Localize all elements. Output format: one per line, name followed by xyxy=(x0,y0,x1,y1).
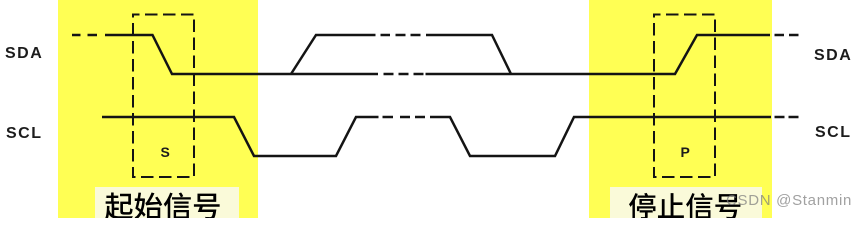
wire SCL right dashed tail xyxy=(775,116,799,119)
wire SDA baseline to stop rise and high to right xyxy=(426,35,771,74)
wire SCL: high, fall, low, rise xyxy=(102,117,379,156)
node SCL label left xyxy=(6,126,43,142)
wire SCL: high, fall, low, rise at stop, high to right xyxy=(430,117,771,156)
node SCL label right xyxy=(815,125,852,141)
wire SDA left dashed lead-in xyxy=(72,34,97,37)
wire SDA pulse top dashes xyxy=(381,34,421,37)
start condition dashed box S xyxy=(133,15,194,178)
node SDA label right xyxy=(814,48,852,64)
wire SDA baseline mid dashes xyxy=(384,73,424,76)
wire SDA right dashed tail xyxy=(775,34,799,37)
right yellow highlight band xyxy=(589,0,772,218)
label 停止信号 (stop signal) xyxy=(629,193,740,220)
left yellow highlight band xyxy=(58,0,258,218)
watermark CSDN @Stanmin xyxy=(726,193,852,208)
label 起始信号 (start signal) xyxy=(105,192,220,220)
stop condition dashed box P xyxy=(654,15,715,178)
wire SDA start: high, fall at S, low baseline to mid xyxy=(105,35,378,74)
node SDA label left xyxy=(5,46,43,62)
wire SDA pulse top rail end, fall to baseline xyxy=(426,35,511,74)
wire SDA data pulse top rail xyxy=(291,35,376,74)
wire SCL mid dashes xyxy=(383,116,426,119)
right pale label box 停止信号 xyxy=(610,187,762,218)
node P (stop) xyxy=(681,145,690,159)
node S (start) xyxy=(161,145,170,159)
left pale label box 起始信号 xyxy=(95,187,239,218)
